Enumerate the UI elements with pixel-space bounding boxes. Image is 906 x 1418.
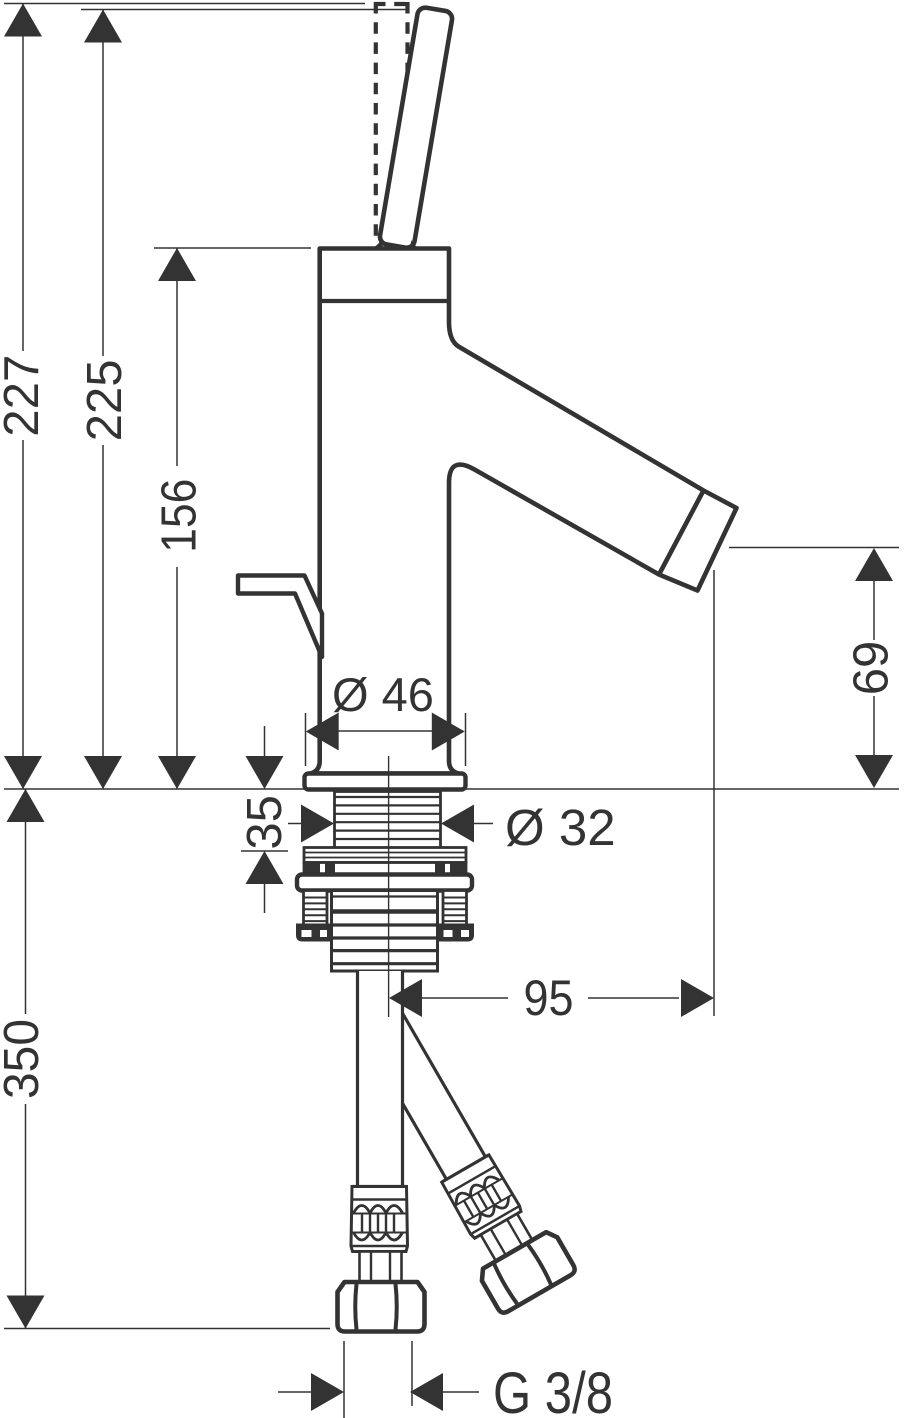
faucet body and spout outline xyxy=(311,249,737,774)
drain pull lever xyxy=(238,576,322,658)
centerline xyxy=(388,756,390,1017)
dim 156 line xyxy=(176,248,178,466)
mounting nut flange xyxy=(297,875,472,891)
dim 350 line xyxy=(25,789,27,1014)
vertical hose xyxy=(338,971,425,1332)
arrow d46 left xyxy=(306,713,339,751)
svg-text:G 3/8: G 3/8 xyxy=(493,1361,613,1418)
dashed handle vertical position xyxy=(374,2,410,243)
dim d32 lines xyxy=(288,823,302,825)
arrow 69 down xyxy=(855,755,893,788)
arrow 35 up xyxy=(246,851,284,884)
clip foot right xyxy=(439,924,474,942)
arrow d32 left xyxy=(301,805,334,843)
ref line 350 bottom xyxy=(4,1328,330,1330)
arrow 227 down xyxy=(4,756,42,789)
arrow 95 left xyxy=(389,979,422,1017)
arrow G38 right xyxy=(410,1373,443,1411)
arrow G38 left xyxy=(311,1373,344,1411)
arrow d46 right xyxy=(432,713,465,751)
diagonal hose (drawn first, under vertical hose) xyxy=(335,983,577,1315)
arrow 95 right xyxy=(681,979,714,1017)
dim 227 line xyxy=(22,4,24,352)
arrow d32 right xyxy=(441,805,474,843)
svg-text:69: 69 xyxy=(845,641,899,696)
svg-text:156: 156 xyxy=(153,479,207,553)
arrow 350 down xyxy=(7,1296,45,1329)
arrow 350 up xyxy=(7,789,45,822)
arrow 156 up xyxy=(158,248,196,281)
dim G38 ext + lines xyxy=(343,1341,345,1418)
knurled column left xyxy=(304,891,328,927)
arrow 225 down xyxy=(84,756,122,789)
handle base fillet left xyxy=(370,239,384,249)
cap bottom line xyxy=(320,299,449,303)
ref line 227 top xyxy=(4,3,365,5)
arrow 156 down xyxy=(158,756,196,789)
arrow 35 down xyxy=(246,756,284,789)
threaded shank upper xyxy=(335,792,441,849)
ref line 225 top xyxy=(81,9,409,11)
gasket stack xyxy=(304,848,466,863)
center threaded column xyxy=(332,891,438,972)
base plate xyxy=(305,774,466,790)
tab washer xyxy=(304,863,466,875)
ref line 69 spout outlet xyxy=(729,547,899,549)
svg-text:95: 95 xyxy=(524,970,574,1026)
arrow 227 up xyxy=(4,4,42,37)
dim 35 lines xyxy=(264,726,266,757)
FAUCET xyxy=(238,2,737,790)
LOWER MOUNTING STACK xyxy=(296,792,474,972)
svg-text:35: 35 xyxy=(238,795,292,850)
dim 225 line xyxy=(102,10,104,357)
spout aerator separation line xyxy=(659,491,704,575)
handle base fillet right xyxy=(410,240,422,249)
dim 95 projection + line xyxy=(713,570,715,1016)
svg-text:227: 227 xyxy=(0,355,49,437)
baseline mounting surface xyxy=(4,788,899,790)
arrow 225 up xyxy=(84,10,122,43)
clip foot left xyxy=(296,924,333,942)
ref line 156 xyxy=(154,247,311,249)
svg-text:Ø 32: Ø 32 xyxy=(505,799,616,856)
knurled column right xyxy=(443,891,467,927)
lever pin handle solid (tilted) xyxy=(379,6,454,248)
svg-text:Ø 46: Ø 46 xyxy=(332,668,434,721)
dim 69 line xyxy=(873,581,875,640)
svg-text:225: 225 xyxy=(78,359,132,441)
svg-text:350: 350 xyxy=(0,1019,49,1099)
arrow 69 up xyxy=(855,548,893,581)
dim d46 ext + line xyxy=(305,713,307,766)
